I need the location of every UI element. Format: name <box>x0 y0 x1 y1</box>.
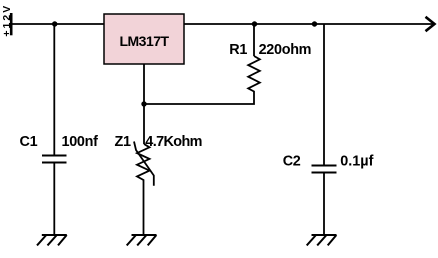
wire LM317T adjust pin down <box>143 64 145 104</box>
output arrow <box>426 17 435 31</box>
capacitor C2 <box>312 166 337 173</box>
svg-text:LM317T: LM317T <box>119 33 169 49</box>
node C2 branch junction <box>312 21 317 26</box>
wire adjust node to R1 bottom <box>144 92 254 104</box>
svg-text:0.1µf: 0.1µf <box>340 154 373 170</box>
ground below C1 <box>37 235 67 245</box>
capacitor C1 <box>42 156 67 163</box>
wire C2 to ground <box>323 173 325 236</box>
trimmer Z1 <box>134 142 154 186</box>
svg-text:Z1: Z1 <box>115 134 131 150</box>
svg-text:100nf: 100nf <box>62 134 99 150</box>
node input junction <box>52 21 57 26</box>
svg-text:C1: C1 <box>20 134 38 150</box>
svg-text:+12V: +12V <box>1 4 13 37</box>
resistor R1 <box>248 24 260 92</box>
node adjust junction <box>141 101 146 106</box>
regulator U1 LM317T body <box>104 14 184 64</box>
svg-text:C2: C2 <box>283 154 301 170</box>
wire C1 to ground <box>53 163 55 236</box>
svg-text:4.7Kohm: 4.7Kohm <box>145 134 202 150</box>
wire junction to Z1 <box>143 104 145 144</box>
svg-text:R1: R1 <box>229 42 247 58</box>
svg-text:220ohm: 220ohm <box>259 42 312 58</box>
wire LM317T output to arrow <box>184 23 434 25</box>
power terminal +12V bar <box>10 13 13 35</box>
node R1 top junction <box>252 21 257 26</box>
wire Z1 to ground <box>143 182 145 235</box>
ground below C2 <box>307 235 337 245</box>
wire C2 branch down <box>323 24 325 166</box>
ground below Z1 <box>127 235 157 245</box>
wire input junction to C1 <box>53 24 55 156</box>
wire input to LM317T <box>12 23 105 25</box>
